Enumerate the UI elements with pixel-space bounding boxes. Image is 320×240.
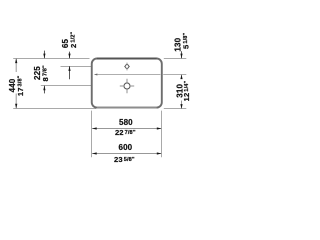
svg-text:580: 580: [119, 118, 133, 127]
svg-text:600: 600: [118, 143, 132, 152]
